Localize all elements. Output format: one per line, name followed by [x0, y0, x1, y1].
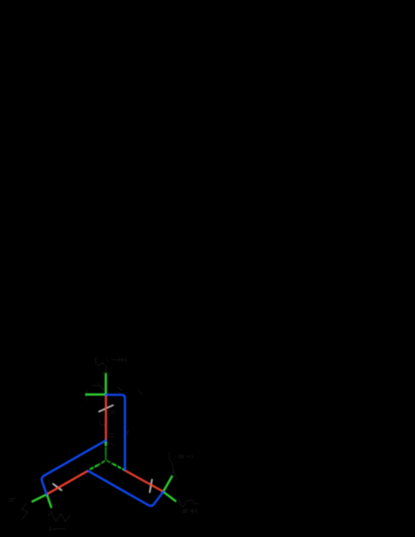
gray constraint tick on right spoke [150, 480, 152, 493]
ghost marks C (near node E3) [108, 431, 130, 450]
red spoke 2 (to right cross) [125, 471, 163, 492]
ghost squiggle D1 (below left cross) [21, 504, 27, 520]
ghost squiggle D2 [48, 512, 70, 522]
green node marker E3 [105, 441, 107, 446]
red spoke 1 (top, vertical) [105, 395, 107, 440]
green cross at left vertex [32, 494, 51, 507]
ghost dash D4 [8, 499, 14, 502]
gray constraint tick on left spoke [53, 484, 62, 491]
red spoke 3 (to left cross) [47, 471, 88, 495]
ghost annotation text A [107, 358, 126, 362]
ghost cursor glyph F (bottom right) [179, 500, 198, 506]
dashed axis C to E3 (dark green, vertical) [105, 448, 107, 457]
ghost dash D3 [50, 527, 65, 531]
dashed axis C to E2 bright part [89, 465, 98, 470]
blue arm L1 (top arm outline) [106, 395, 125, 470]
green cross at top vertex [86, 374, 106, 395]
ghost annotation text E [175, 455, 192, 458]
blue arm L2 (lower-right arm outline) [88, 471, 163, 506]
dashed axis C to E2 dark part [98, 461, 105, 465]
ghost marks B (beside top cross) [85, 383, 142, 425]
dashed axis C to E1 dark part [107, 461, 113, 464]
ghost cursor glyph E (right) [169, 452, 177, 479]
ghost annotation text F [179, 509, 196, 513]
ghost cursor glyph A (top) [96, 357, 110, 373]
dashed axis C to E1 bright part [114, 464, 125, 470]
green cross at right vertex [163, 477, 175, 502]
gray constraint tick on top spoke [99, 405, 113, 411]
blue arm L3 (lower-left arm outline) [42, 440, 106, 494]
